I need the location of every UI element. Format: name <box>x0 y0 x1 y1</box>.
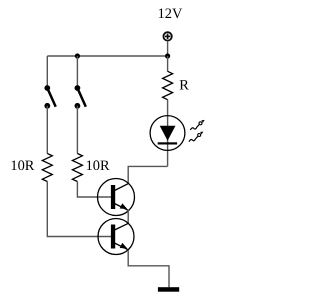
switch left (open) <box>44 85 55 109</box>
svg-text:10R: 10R <box>10 158 34 174</box>
LED light arrow upper <box>190 120 204 130</box>
wire right resistor down to corner and right to Q1 base <box>77 182 111 198</box>
node junction dot at rail and right branch <box>75 53 80 58</box>
wire from power terminal down to top rail <box>167 41 169 56</box>
LED cathode bar <box>158 142 177 144</box>
LED circle <box>150 116 185 151</box>
resistor 10R left <box>42 154 52 182</box>
transistor Q1 base bar <box>111 185 115 209</box>
wire Q2 emitter down, right, and down to ground <box>128 250 169 288</box>
wire rail junction down to resistor R <box>167 56 169 72</box>
LED light arrow lower <box>189 132 203 142</box>
wire top rail horizontal <box>47 55 167 57</box>
transistor Q2 collector line <box>115 223 129 230</box>
node junction dot at rail and supply wire <box>165 53 170 58</box>
wire Q1 emitter to Q2 collector <box>127 210 129 224</box>
transistor Q2 circle <box>98 219 134 255</box>
transistor Q2 base bar <box>111 225 115 249</box>
switch right (open) <box>75 85 86 109</box>
wire LED bottom corner left and down to Q1 collector <box>128 166 167 183</box>
transistor Q1 emitter line with arrow <box>115 203 129 210</box>
LED anode triangle <box>160 126 176 141</box>
resistor R <box>163 71 173 99</box>
wire right switch to right resistor <box>76 106 78 154</box>
transistor Q1 collector line <box>115 184 129 191</box>
wire left resistor down to corner and right to Q2 base <box>47 182 111 237</box>
wire resistor R to LED and through LED to corner <box>167 100 169 167</box>
transistor Q2 emitter line with arrow <box>115 243 129 250</box>
svg-text:12V: 12V <box>158 6 183 22</box>
svg-text:R: R <box>179 77 189 93</box>
wire left branch from rail to switch <box>46 56 48 88</box>
wire right branch from rail to switch <box>76 56 78 88</box>
resistor 10R right <box>72 154 82 182</box>
ground <box>158 287 179 292</box>
wire left switch to left resistor <box>46 106 48 154</box>
transistor Q1 circle <box>98 179 135 216</box>
power terminal + (supply positive) <box>163 32 171 40</box>
svg-text:10R: 10R <box>86 158 110 174</box>
